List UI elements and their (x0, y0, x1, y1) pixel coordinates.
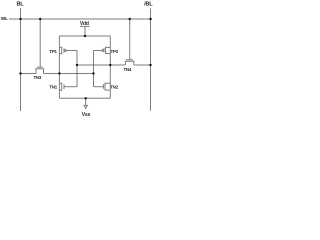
wire right inverter stick (109, 36, 111, 98)
wire right gate line (93, 51, 95, 87)
svg-text:TN4: TN4 (123, 67, 131, 72)
transistor TN1 nmos (59, 83, 77, 92)
junction Vdd stub-rail (84, 35, 86, 37)
power Vdd T-bar (80, 25, 90, 27)
junction BL-WL (19, 18, 21, 20)
wire /BL bit line complement (150, 8, 152, 110)
junction TN4 gate-WL (129, 18, 131, 20)
transistor TP1 pmos (59, 47, 77, 55)
junction lower wire-left stick (58, 72, 60, 74)
svg-text:TP2: TP2 (111, 49, 119, 54)
ground Vss triangle (84, 105, 87, 108)
wire left inverter stick (58, 36, 60, 98)
junction /BL-WL (149, 18, 151, 20)
wire node QB cross-coupling (upper) (77, 64, 151, 66)
wire BL bit line (20, 8, 22, 111)
junction upper wire-left gate line (76, 64, 78, 66)
junction TN3 gate-WL (39, 18, 41, 20)
transistor TN3 access (35, 19, 44, 74)
svg-text:TN3: TN3 (33, 75, 41, 80)
junction lower wire-BL (19, 72, 21, 74)
wire Vss stub (85, 98, 87, 105)
svg-text:TN1: TN1 (49, 85, 57, 90)
svg-text:TN2: TN2 (110, 84, 118, 89)
svg-text:WL: WL (1, 16, 8, 22)
svg-text:BL: BL (17, 1, 25, 7)
wire node Q cross-coupling (lower) (21, 73, 94, 75)
wire WL word line (9, 18, 152, 20)
junction lower wire-right gate line (92, 72, 94, 74)
wire Vss rail (59, 97, 110, 99)
crossing lower wire-left gate line (76, 73, 77, 74)
crossing upper wire-right gate line (93, 64, 94, 65)
junction upper wire-right stick (109, 64, 111, 66)
wire Vdd rail (59, 35, 110, 37)
svg-text:TP1: TP1 (49, 49, 57, 54)
junction Vss stub-rail (85, 97, 87, 99)
transistor TP2 pmos (94, 47, 111, 54)
svg-text:Vdd: Vdd (80, 21, 89, 27)
transistor TN2 nmos (94, 83, 111, 91)
junction upper wire-/BL (149, 64, 151, 66)
wire left gate line (76, 51, 78, 87)
svg-text:/BL: /BL (144, 2, 153, 8)
wire Vdd stub (84, 26, 86, 36)
transistor TN4 access (125, 19, 135, 65)
svg-text:Vss: Vss (82, 112, 91, 118)
